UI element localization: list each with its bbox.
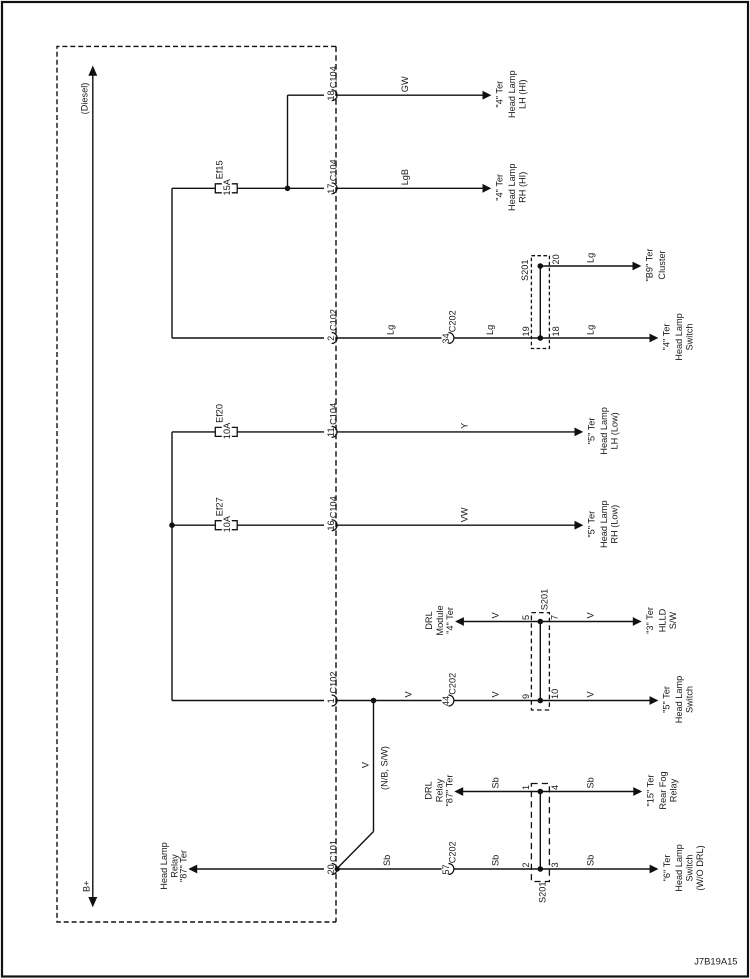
svg-text:HLLD: HLLD <box>657 608 667 632</box>
svg-text:Head Lamp: Head Lamp <box>674 676 684 724</box>
svg-text:Head Lamp: Head Lamp <box>674 844 684 892</box>
connector C104 pin 18 <box>326 66 339 100</box>
svg-text:S201: S201 <box>539 589 549 610</box>
svg-text:"4" Ter: "4" Ter <box>445 607 455 634</box>
connector C104 pin 17 <box>326 159 339 193</box>
connector C202 pin 57 <box>441 841 457 874</box>
svg-text:C104: C104 <box>329 159 339 181</box>
wire row C right segment <box>454 337 650 339</box>
svg-text:57: 57 <box>441 864 451 874</box>
wire branch diagonal to C101 <box>337 832 374 870</box>
arrow to Rear Fog Relay <box>634 788 641 795</box>
arrow to HLLD S/W <box>633 618 640 625</box>
svg-text:GW: GW <box>400 76 410 92</box>
wire colour label Sb (DRL row seg2) <box>586 777 596 788</box>
wire colour label Sb (row G seg3) <box>586 855 596 866</box>
svg-text:Lg: Lg <box>485 325 495 335</box>
junction dot at C101 <box>335 867 339 871</box>
wire branch vertical V(N/B,S/W) <box>373 701 375 832</box>
label S201 (lower box) <box>537 882 547 903</box>
svg-text:B+: B+ <box>81 881 91 893</box>
splice box S201 (lower) <box>531 784 549 882</box>
svg-text:C202: C202 <box>447 673 457 695</box>
svg-text:Relay: Relay <box>434 778 444 802</box>
wire colour label Lg (row C seg1) <box>385 325 395 335</box>
splice wire inside S201 lower <box>539 792 541 870</box>
junction dot row F branch <box>371 698 376 703</box>
junction dot S201 lower top <box>538 789 543 794</box>
wire vertical bus B-to-C <box>171 188 173 338</box>
label B+ <box>81 881 91 893</box>
pin 7 <box>550 615 560 620</box>
svg-text:Ef15: Ef15 <box>215 160 225 179</box>
svg-text:S201: S201 <box>537 882 547 903</box>
pin 4 <box>550 785 560 790</box>
arrow to Head Lamp Switch 4 <box>650 334 657 341</box>
arrow to Head Lamp RH (HI) <box>483 185 490 192</box>
svg-text:C104: C104 <box>329 403 339 425</box>
svg-text:C202: C202 <box>447 310 457 332</box>
svg-text:Sb: Sb <box>586 777 596 788</box>
wire row F mid segment <box>336 700 441 702</box>
svg-text:5: 5 <box>521 615 531 620</box>
svg-text:V: V <box>491 691 501 698</box>
svg-text:C101: C101 <box>329 840 339 862</box>
wire row E fuse to connector <box>237 524 324 526</box>
splice box S201 (upper) <box>531 256 549 349</box>
svg-text:10: 10 <box>550 689 560 699</box>
svg-text:V: V <box>491 612 501 619</box>
pin 9 <box>521 694 531 699</box>
svg-text:15A: 15A <box>222 178 232 195</box>
arrowhead down (B+) <box>89 898 96 907</box>
wire row D right segment <box>336 431 575 433</box>
splice box S201 (middle) <box>531 613 549 710</box>
fuse Ef15 15A <box>215 160 238 195</box>
label Head Lamp LH (HI) <box>495 70 528 118</box>
connector C101 pin 20 <box>326 840 339 874</box>
label DRL Module <box>424 605 455 635</box>
svg-text:C104: C104 <box>329 496 339 518</box>
svg-text:S/W: S/W <box>668 611 678 629</box>
arrow to Head Lamp Switch 5 <box>650 697 657 704</box>
wire row A drop to row B <box>287 95 289 188</box>
wire row B lead left <box>172 187 215 189</box>
svg-text:"5" Ter: "5" Ter <box>587 418 597 445</box>
connector C104 pin 16 <box>326 496 339 530</box>
svg-text:44: 44 <box>441 696 451 706</box>
svg-text:Sb: Sb <box>491 777 501 788</box>
wire row E right segment <box>336 524 575 526</box>
connector C104 pin 11 <box>326 403 339 437</box>
svg-text:Module: Module <box>435 605 445 635</box>
wire colour label GW (row A) <box>400 76 410 92</box>
svg-text:V: V <box>586 691 596 698</box>
junction dot S201 upper bottom <box>538 336 543 341</box>
svg-text:Lg: Lg <box>385 325 395 335</box>
wire row D fuse to connector <box>237 431 324 433</box>
label Head Lamp Relay 87 <box>159 842 189 890</box>
wire colour label V (row F seg2) <box>491 691 501 698</box>
svg-text:V: V <box>586 612 596 619</box>
svg-text:C104: C104 <box>329 66 339 88</box>
svg-text:17: 17 <box>326 183 336 193</box>
svg-text:Head Lamp: Head Lamp <box>599 407 609 455</box>
svg-text:Head Lamp: Head Lamp <box>599 500 609 548</box>
svg-text:11: 11 <box>326 427 336 437</box>
splice wire inside S201 upper <box>539 266 541 338</box>
wire row G left segment <box>197 868 324 870</box>
svg-text:2: 2 <box>521 862 531 867</box>
wire colour label Lg (row C seg3) <box>586 325 596 335</box>
wire colour label V (row F seg1) <box>404 691 414 698</box>
arrow to Cluster <box>633 262 640 269</box>
svg-text:(N/B, S/W): (N/B, S/W) <box>380 746 390 790</box>
svg-text:Lg: Lg <box>586 253 596 263</box>
svg-text:V: V <box>404 691 414 698</box>
wire DRL relay row <box>463 791 634 793</box>
svg-text:"87" Ter: "87" Ter <box>445 775 455 807</box>
svg-text:DRL: DRL <box>424 781 434 799</box>
wire colour label LgB (row B) <box>400 169 410 185</box>
svg-text:19: 19 <box>521 326 531 336</box>
svg-text:C102: C102 <box>329 672 339 694</box>
svg-text:"15" Ter: "15" Ter <box>646 775 656 807</box>
junction dot S201 middle top <box>538 619 543 624</box>
svg-text:1: 1 <box>326 698 336 703</box>
label Head Lamp Switch 5 <box>662 676 695 724</box>
svg-text:16: 16 <box>326 520 336 530</box>
connector C202 pin 44 <box>441 673 457 706</box>
connector C102 pin 1 <box>326 672 339 706</box>
wire row E lead left <box>172 524 215 526</box>
svg-text:10A: 10A <box>222 515 232 532</box>
label V (N/B, S/W) line1 <box>360 761 370 768</box>
svg-text:"B9" Ter: "B9" Ter <box>645 249 655 282</box>
svg-text:S201: S201 <box>520 260 530 281</box>
label Cluster <box>645 249 667 282</box>
B+ feed wire <box>92 74 94 899</box>
svg-text:20: 20 <box>326 864 336 874</box>
pin 3 <box>550 862 560 867</box>
pin 20 <box>551 254 561 264</box>
svg-text:"5" Ter: "5" Ter <box>662 686 672 713</box>
svg-text:C202: C202 <box>447 841 457 863</box>
svg-text:9: 9 <box>521 694 531 699</box>
svg-text:Ef27: Ef27 <box>215 497 225 516</box>
pin 5 <box>521 615 531 620</box>
wire colour label Sb (DRL row seg1) <box>491 777 501 788</box>
wire colour label Lg (row C seg2) <box>485 325 495 335</box>
arrow to Head Lamp LH (Low) <box>575 428 582 435</box>
wire colour label V (HLLD seg2) <box>586 612 596 619</box>
wire cluster row <box>540 265 633 267</box>
svg-text:Head Lamp: Head Lamp <box>507 164 517 212</box>
arrow to Head Lamp RH (Low) <box>575 522 582 529</box>
svg-text:V: V <box>360 761 370 768</box>
junction dot S201 upper top <box>538 264 543 269</box>
arrow to DRL Module <box>456 618 463 625</box>
svg-text:Switch: Switch <box>685 323 695 350</box>
wire row C left segment <box>172 337 324 339</box>
label Rear Fog Relay <box>646 771 679 809</box>
pin 18 <box>551 326 561 336</box>
fuse Ef20 10A <box>215 404 238 439</box>
svg-text:34: 34 <box>441 333 451 343</box>
wire row F right segment <box>454 700 650 702</box>
svg-text:Head Lamp: Head Lamp <box>159 842 169 890</box>
arrow to Head Lamp Relay 87 <box>190 865 197 872</box>
svg-text:C102: C102 <box>329 309 339 331</box>
svg-text:LgB: LgB <box>400 169 410 185</box>
svg-text:LH (Low): LH (Low) <box>610 412 620 449</box>
splice wire inside S201 middle <box>539 622 541 701</box>
label Head Lamp Switch WO DRL <box>662 844 705 892</box>
label S201 (middle box) <box>539 589 549 610</box>
pin 10 <box>550 689 560 699</box>
fuse Ef27 10A <box>215 497 238 532</box>
svg-text:Switch: Switch <box>685 686 695 713</box>
wire row C mid segment <box>336 337 441 339</box>
svg-text:18: 18 <box>326 90 336 100</box>
junction dot S201 middle bottom <box>538 698 543 703</box>
label S201 (upper box) <box>520 260 530 281</box>
svg-text:"6" Ter: "6" Ter <box>662 855 672 882</box>
label DRL Relay 87 <box>424 775 455 807</box>
connector C102 pin 2 <box>326 309 339 343</box>
wire colour label V (row F seg3) <box>586 691 596 698</box>
svg-text:18: 18 <box>551 326 561 336</box>
svg-text:"3" Ter: "3" Ter <box>645 607 655 634</box>
svg-text:Head Lamp: Head Lamp <box>674 313 684 361</box>
pin 19 <box>521 326 531 336</box>
svg-text:"87" Ter: "87" Ter <box>179 850 189 882</box>
diagram code J7B19A15 <box>694 956 737 967</box>
svg-text:7: 7 <box>550 615 560 620</box>
connector C202 pin 34 <box>441 310 457 343</box>
arrow to Head Lamp LH (HI) <box>483 92 490 99</box>
wire colour label VW (row E) <box>459 507 469 522</box>
svg-text:4: 4 <box>550 785 560 790</box>
label Head Lamp RH (Low) <box>587 500 620 548</box>
pin 1 <box>521 785 531 790</box>
junction dot bus row E <box>170 523 175 528</box>
arrow to Head Lamp Switch WO DRL <box>650 865 657 872</box>
wire row G right segment <box>454 868 650 870</box>
label Head Lamp RH (HI) <box>495 164 528 212</box>
svg-text:RH (Low): RH (Low) <box>610 505 620 544</box>
svg-text:3: 3 <box>550 862 560 867</box>
dashed harness box (battery/fuse block boundary) <box>57 46 336 922</box>
svg-text:Switch: Switch <box>685 854 695 881</box>
svg-text:Cluster: Cluster <box>657 250 667 279</box>
svg-text:Ef20: Ef20 <box>215 404 225 423</box>
svg-text:Lg: Lg <box>586 325 596 335</box>
svg-text:1: 1 <box>521 785 531 790</box>
svg-text:20: 20 <box>551 254 561 264</box>
arrowhead up (Diesel feed) <box>89 67 96 76</box>
wire row D lead left <box>172 431 215 433</box>
wire colour label Sb (row G seg1) <box>382 855 392 866</box>
wire colour label Y (row D) <box>459 423 469 429</box>
label V (N/B, S/W) line2 <box>380 746 390 790</box>
svg-text:DRL: DRL <box>424 611 434 629</box>
svg-text:"4" Ter: "4" Ter <box>495 174 505 201</box>
label Head Lamp Switch 4 <box>662 313 695 361</box>
svg-text:Relay: Relay <box>668 778 678 802</box>
wire row B fuse to connector <box>237 187 324 189</box>
svg-text:Y: Y <box>459 423 469 429</box>
svg-text:Head Lamp: Head Lamp <box>507 70 517 118</box>
svg-text:RH (HI): RH (HI) <box>518 172 528 203</box>
junction dot S201 lower bottom <box>538 867 543 872</box>
svg-text:(W/O DRL): (W/O DRL) <box>695 845 705 890</box>
svg-text:"4" Ter: "4" Ter <box>662 324 672 351</box>
svg-text:VW: VW <box>459 507 469 522</box>
svg-text:Rear Fog: Rear Fog <box>658 771 668 809</box>
wire row F left segment <box>172 700 324 702</box>
wire row A right segment <box>336 94 483 96</box>
svg-text:"5" Ter: "5" Ter <box>587 511 597 538</box>
pin 2 <box>521 862 531 867</box>
junction dot row A/B <box>285 186 290 191</box>
svg-text:LH (HI): LH (HI) <box>518 79 528 109</box>
wire vertical bus D-to-F <box>171 432 173 701</box>
svg-text:(Diesel): (Diesel) <box>80 83 90 115</box>
wire HLLD row <box>463 621 633 623</box>
wire row G mid segment <box>336 868 441 870</box>
wire row A left segment <box>288 94 325 96</box>
label Head Lamp LH (Low) <box>587 407 620 455</box>
label (Diesel) <box>80 83 90 115</box>
svg-text:J7B19A15: J7B19A15 <box>694 956 737 967</box>
svg-text:2: 2 <box>326 336 336 341</box>
wire row B right segment <box>336 187 483 189</box>
wire colour label V (HLLD seg1) <box>491 612 501 619</box>
svg-text:"4" Ter: "4" Ter <box>495 81 505 108</box>
svg-text:10A: 10A <box>222 422 232 439</box>
dashed connector line C101/C102/C104 <box>335 46 337 922</box>
wire colour label Lg (cluster row) <box>586 253 596 263</box>
arrow to DRL Relay 87 <box>456 788 463 795</box>
svg-text:Sb: Sb <box>382 855 392 866</box>
svg-text:Sb: Sb <box>491 855 501 866</box>
svg-text:Sb: Sb <box>586 855 596 866</box>
wire colour label Sb (row G seg2) <box>491 855 501 866</box>
label HLLD S/W <box>645 607 678 634</box>
